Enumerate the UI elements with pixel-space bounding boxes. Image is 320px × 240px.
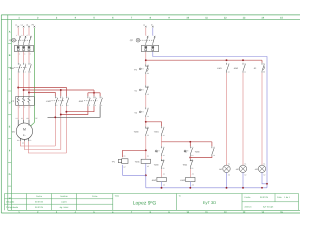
- svg-text:Titulo: Titulo: [115, 195, 120, 198]
- svg-text:A1: A1: [163, 172, 165, 175]
- svg-text:X2: X2: [244, 174, 246, 177]
- terminal L1: [17, 26, 19, 28]
- svg-text:Nombre: Nombre: [60, 195, 68, 198]
- coil KM1: [141, 159, 150, 163]
- svg-text:A1: A1: [123, 155, 125, 158]
- border frame bottom band inner line: [8, 209, 300, 211]
- svg-text:21: 21: [191, 159, 193, 162]
- start button S3: [161, 146, 163, 148]
- svg-text:14: 14: [244, 71, 246, 74]
- terminal N control: [152, 26, 154, 28]
- svg-text:-KM1: -KM1: [9, 67, 15, 70]
- svg-text:B: B: [9, 54, 11, 57]
- svg-text:A1: A1: [147, 155, 149, 158]
- svg-text:Comprobado: Comprobado: [6, 206, 19, 209]
- wire: [145, 136, 147, 159]
- svg-text:A: A: [9, 30, 11, 33]
- terminal L2: [23, 26, 25, 28]
- svg-text:5: 5: [68, 96, 69, 99]
- svg-text:21: 21: [147, 126, 149, 129]
- svg-text:-KM2: -KM2: [151, 179, 157, 182]
- motor stubs bottom: [19, 138, 21, 141]
- coil KM3: [186, 177, 195, 181]
- svg-text:M: M: [23, 128, 26, 132]
- breaker Q1: [19, 36, 21, 38]
- contactor KM1 power poles: [17, 63, 19, 65]
- start button S2 NO: [145, 107, 147, 109]
- svg-text:A2: A2: [192, 183, 194, 186]
- wire to lamp: [226, 73, 228, 165]
- svg-text:2: 2: [89, 104, 90, 107]
- lamp H1 to bus: [226, 173, 228, 188]
- breaker Q2: [147, 36, 149, 38]
- svg-text:A2: A2: [163, 183, 165, 186]
- junction node A: [145, 121, 147, 123]
- motor M1: [16, 123, 32, 139]
- wire to lamp: [242, 73, 244, 165]
- wires F2 to motor: [17, 105, 19, 120]
- svg-text:1: 1: [56, 96, 57, 99]
- svg-text:22: 22: [147, 134, 149, 137]
- svg-text:U1: U1: [16, 117, 18, 120]
- branch to KM3: [61, 89, 94, 91]
- svg-text:14: 14: [163, 154, 165, 157]
- svg-text:A1: A1: [192, 172, 194, 175]
- crossover wires KM2-KM3: [66, 106, 94, 111]
- svg-text:13: 13: [244, 62, 246, 65]
- thermal NC contact F2 95-96: [145, 64, 147, 66]
- svg-text:3: 3: [25, 62, 26, 65]
- svg-text:G: G: [9, 173, 11, 176]
- svg-text:L1: L1: [143, 23, 145, 26]
- wire L1 top: [17, 28, 19, 36]
- wire blue to bus: [189, 182, 191, 188]
- svg-text:1: 1: [89, 96, 90, 99]
- wire L down from Q2: [145, 52, 147, 65]
- svg-text:EyT 3D.qet: EyT 3D.qet: [263, 205, 274, 208]
- contact KM1 aux NO: [161, 126, 163, 128]
- start button S4 column: [189, 142, 191, 147]
- svg-text:Lopez 9ºG: Lopez 9ºG: [133, 201, 157, 207]
- svg-text:3: 3: [95, 96, 96, 99]
- interlock KM3 NC: [161, 159, 163, 161]
- wires KM1 to F2 with junctions: [17, 73, 19, 97]
- svg-text:Ag. Velez: Ag. Velez: [60, 206, 69, 209]
- svg-text:-KM3: -KM3: [78, 100, 84, 103]
- lamp -H2: [239, 165, 246, 172]
- svg-text:4: 4: [25, 71, 26, 74]
- svg-text:-KM1: -KM1: [135, 161, 141, 164]
- svg-text:Archivo: Archivo: [245, 205, 253, 208]
- svg-text:Lopez: Lopez: [61, 201, 67, 204]
- wire: [161, 169, 163, 177]
- branch staircase to KM2: [18, 88, 66, 97]
- svg-text:2: 2: [19, 71, 20, 74]
- svg-text:14: 14: [191, 154, 193, 157]
- svg-text:2: 2: [56, 104, 57, 107]
- wire: [189, 169, 191, 177]
- svg-text:X1: X1: [228, 163, 230, 166]
- svg-text:96: 96: [147, 72, 149, 75]
- svg-text:6: 6: [68, 104, 69, 107]
- svg-text:EyT 3D: EyT 3D: [203, 200, 216, 205]
- interlock KM2 NC: [189, 159, 191, 161]
- junction L3: [28, 92, 30, 94]
- node B horizontal: [162, 141, 212, 143]
- svg-text:13: 13: [163, 146, 165, 149]
- border frame top band inner line: [1, 19, 300, 21]
- wire to lamp H3: [261, 73, 263, 165]
- svg-text:6: 6: [101, 104, 102, 107]
- wire: [161, 136, 163, 146]
- wire L control top: [145, 28, 147, 36]
- contactor KM2 power poles: [54, 96, 56, 98]
- thermal relay F2: [16, 97, 35, 106]
- svg-text:21: 21: [163, 159, 165, 162]
- junction L bus: [145, 59, 147, 61]
- svg-text:L2: L2: [21, 23, 23, 26]
- border frame left band lines: [7, 15, 9, 210]
- svg-text:01/07/24: 01/07/24: [260, 196, 269, 199]
- wire: [189, 156, 191, 159]
- svg-text:13: 13: [228, 62, 230, 65]
- svg-text:3~: 3~: [23, 134, 26, 137]
- coil KM2: [157, 177, 166, 181]
- neutral wire blue: [153, 52, 267, 188]
- svg-text:12: 12: [147, 93, 149, 96]
- svg-text:98: 98: [263, 71, 265, 74]
- KM2 outputs down: [54, 106, 56, 146]
- contactor KM3 power poles: [87, 96, 89, 98]
- wire N control top: [152, 28, 154, 36]
- svg-text:A2: A2: [147, 165, 149, 168]
- svg-text:13: 13: [147, 107, 149, 110]
- svg-text:L1: L1: [15, 23, 17, 26]
- L bus to lamps branch: [146, 59, 262, 61]
- terminal PE: [34, 26, 36, 28]
- wire: [161, 156, 163, 159]
- terminal L3: [28, 26, 30, 28]
- svg-text:Fecha: Fecha: [245, 196, 252, 199]
- wires Q1 to KM1: [17, 52, 19, 63]
- wire: [145, 74, 147, 85]
- svg-text:95: 95: [147, 64, 149, 67]
- wire blue to bus: [161, 182, 163, 188]
- junction lamp branch -KM2: [242, 59, 244, 61]
- svg-text:3: 3: [62, 96, 63, 99]
- junction P1 bottom: [145, 174, 147, 176]
- svg-text:14: 14: [147, 115, 149, 118]
- junction lamp branch -KM1: [226, 59, 228, 61]
- terminal L1 control: [145, 26, 147, 28]
- svg-text:22: 22: [163, 167, 165, 170]
- device P1 wiring: [123, 150, 146, 157]
- svg-text:14: 14: [163, 134, 165, 137]
- svg-text:W1: W1: [26, 117, 29, 120]
- svg-text:01/07/24: 01/07/24: [35, 206, 44, 209]
- wire: [145, 117, 147, 126]
- wire L2 top: [23, 28, 25, 36]
- svg-text:V1: V1: [21, 117, 23, 120]
- svg-text:-KM2: -KM2: [46, 100, 52, 103]
- lamp -H3: [258, 165, 265, 172]
- junction L1: [17, 87, 19, 89]
- svg-text:A2: A2: [123, 166, 125, 169]
- junction L2: [23, 89, 25, 91]
- svg-text:11: 11: [147, 85, 149, 88]
- stop button S1 NC: [145, 85, 147, 87]
- crossover dark wire: [48, 106, 101, 117]
- junction P1 top: [145, 149, 147, 151]
- svg-text:C: C: [9, 78, 11, 81]
- svg-text:97: 97: [263, 62, 265, 65]
- lamp H2 to bus: [242, 173, 244, 188]
- svg-text:13: 13: [213, 146, 215, 149]
- neutral bottom bus: [146, 187, 267, 189]
- svg-text:4: 4: [62, 104, 63, 107]
- svg-text:Dibujado: Dibujado: [6, 201, 15, 204]
- svg-text:X1: X1: [244, 163, 246, 166]
- title block grid: [4, 194, 6, 211]
- junction latch: [189, 157, 191, 159]
- wire PE green: [33, 28, 35, 123]
- svg-text:-KM3: -KM3: [180, 179, 186, 182]
- motor stubs top: [17, 120, 19, 126]
- wire L3 top: [28, 28, 30, 36]
- svg-text:L3: L3: [26, 23, 28, 26]
- svg-text:01/07/24: 01/07/24: [35, 201, 44, 204]
- lamp -H1: [223, 165, 230, 172]
- F2 trip contact 97-98: [261, 63, 263, 65]
- svg-text:5: 5: [101, 96, 102, 99]
- svg-text:X2: X2: [228, 174, 230, 177]
- svg-text:13: 13: [191, 146, 193, 149]
- svg-text:5: 5: [30, 62, 31, 65]
- svg-text:X2: X2: [263, 174, 265, 177]
- wire below coil KM1 blue: [145, 163, 147, 187]
- svg-text:4: 4: [95, 104, 96, 107]
- motor delta loop wires: [20, 141, 55, 146]
- border frame outer: [1, 14, 300, 16]
- svg-text:Firma: Firma: [92, 195, 98, 198]
- KM3 aux latch parallel: [211, 142, 213, 147]
- svg-text:X1: X1: [263, 163, 265, 166]
- svg-text:14: 14: [228, 71, 230, 74]
- svg-text:22: 22: [191, 167, 193, 170]
- svg-text:Fecha: Fecha: [36, 195, 43, 198]
- svg-text:13: 13: [163, 126, 165, 129]
- wire: [145, 95, 147, 107]
- contact KM3 NC on main rail: [145, 126, 147, 128]
- svg-text:1: 1: [19, 62, 20, 65]
- svg-text:H: H: [9, 197, 11, 200]
- svg-text:1 de 1: 1 de 1: [284, 196, 291, 199]
- branch node A to latch column: [146, 122, 162, 127]
- svg-text:14: 14: [213, 154, 215, 157]
- lamp H3 to neutral: [262, 173, 267, 184]
- svg-text:6: 6: [30, 71, 31, 74]
